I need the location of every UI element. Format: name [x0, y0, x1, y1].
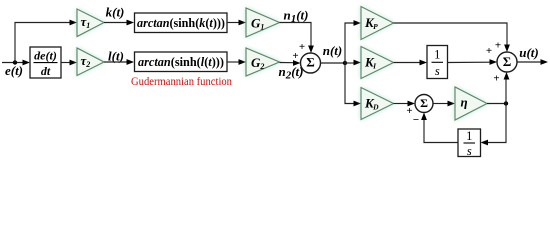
- wire G2 into summer left: [280, 60, 301, 66]
- summer 1: [301, 53, 321, 73]
- wire e(t) input: [2, 60, 30, 66]
- svg-text:arctan(sinh(l(t))): arctan(sinh(l(t))): [138, 55, 224, 69]
- svg-text:+: +: [299, 41, 305, 53]
- svg-text:+: +: [493, 73, 499, 85]
- block arctan(sinh(l(t))): [135, 52, 228, 72]
- wire arctan1 to G1: [227, 20, 246, 26]
- amplifier KD: [361, 88, 394, 120]
- svg-text:−: −: [413, 114, 419, 126]
- wire tau1 to arctan block: [104, 20, 134, 26]
- svg-text:Gudermannian function: Gudermannian function: [131, 74, 232, 88]
- wire tau2 to arctan block: [104, 59, 134, 65]
- svg-text:+: +: [495, 40, 501, 52]
- svg-text:l(t): l(t): [108, 48, 124, 63]
- svg-text:e(t): e(t): [5, 63, 23, 78]
- node eta output junction: [504, 101, 508, 105]
- svg-text:s: s: [467, 144, 472, 158]
- svg-text:+: +: [486, 45, 492, 57]
- wire KI to integrator: [394, 60, 428, 66]
- svg-text:Σ: Σ: [420, 96, 428, 110]
- wire integrator to summer2: [448, 59, 498, 65]
- amplifier KP: [361, 7, 394, 40]
- svg-text:de(t): de(t): [34, 49, 57, 63]
- wire branch down to KD: [345, 63, 361, 106]
- svg-text:1: 1: [466, 129, 472, 143]
- wire branch up to tau1: [15, 20, 77, 63]
- svg-text:Σ: Σ: [306, 55, 315, 70]
- svg-text:u(t): u(t): [519, 45, 539, 60]
- wire KD to summer3: [394, 101, 416, 107]
- block arctan(sinh(k(t))): [135, 13, 228, 33]
- svg-text:s: s: [435, 64, 440, 78]
- svg-text:n2(t): n2(t): [278, 64, 303, 82]
- wire feedback down to 1/s block: [481, 104, 507, 146]
- svg-text:+: +: [292, 50, 298, 62]
- block derivative de(t)/dt: [30, 47, 61, 78]
- amplifier G1: [246, 8, 280, 37]
- wire derivative to tau2: [61, 60, 77, 66]
- amplifier G2: [246, 48, 280, 76]
- wire arctan2 to G2: [227, 59, 246, 65]
- summer 3: [415, 95, 433, 113]
- svg-text:+: +: [406, 105, 412, 117]
- block feedback integrator 1/s: [458, 129, 481, 158]
- wire u(t) output: [517, 59, 548, 65]
- wire branch up to KP: [345, 20, 361, 63]
- summer 2: [497, 52, 517, 72]
- node e(t) branch junction: [13, 60, 17, 64]
- svg-text:k(t): k(t): [106, 5, 125, 20]
- block integrator 1/s: [427, 46, 448, 79]
- wire n1 into summer top: [280, 23, 314, 54]
- amplifier tau2: [77, 48, 104, 76]
- wire summer3 to eta: [433, 101, 455, 107]
- svg-text:η: η: [461, 95, 468, 110]
- amplifier KI: [361, 47, 394, 79]
- svg-text:dt: dt: [41, 64, 51, 78]
- wire feedback into summer3 bottom: [421, 113, 458, 143]
- svg-text:1: 1: [434, 48, 440, 62]
- wire eta up into summer2 bottom: [504, 72, 510, 104]
- wire eta output to junction: [487, 103, 506, 105]
- amplifier tau1: [77, 9, 104, 37]
- wire branch to KI: [345, 60, 361, 66]
- amplifier eta: [455, 87, 487, 120]
- wire KP to summer2 top: [394, 23, 510, 52]
- svg-text:Σ: Σ: [503, 54, 512, 69]
- svg-text:n(t): n(t): [323, 43, 343, 58]
- wire summer1 output to branch: [321, 62, 346, 64]
- svg-text:arctan(sinh(k(t))): arctan(sinh(k(t))): [137, 16, 225, 30]
- node n(t) branch junction: [343, 61, 347, 65]
